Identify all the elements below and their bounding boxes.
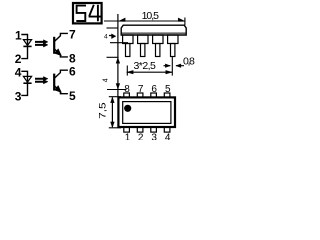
svg-text:7: 7 bbox=[138, 84, 144, 95]
svg-text:0,8: 0,8 bbox=[183, 56, 195, 68]
svg-text:2: 2 bbox=[138, 132, 144, 140]
svg-text:4: 4 bbox=[103, 78, 110, 82]
svg-text:6: 6 bbox=[151, 84, 157, 95]
svg-text:4: 4 bbox=[165, 132, 171, 140]
svg-text:8: 8 bbox=[69, 52, 76, 66]
svg-text:3: 3 bbox=[151, 132, 157, 140]
svg-text:5: 5 bbox=[69, 89, 76, 103]
svg-text:3*2,5: 3*2,5 bbox=[134, 60, 156, 72]
svg-text:1: 1 bbox=[125, 132, 131, 140]
svg-text:4: 4 bbox=[104, 34, 108, 41]
svg-text:7,5: 7,5 bbox=[98, 102, 108, 119]
svg-text:1: 1 bbox=[15, 28, 22, 42]
svg-text:4: 4 bbox=[15, 65, 22, 79]
svg-text:7: 7 bbox=[69, 28, 76, 42]
svg-text:5: 5 bbox=[165, 84, 171, 95]
svg-text:10,5: 10,5 bbox=[142, 10, 160, 22]
svg-text:8: 8 bbox=[124, 84, 130, 95]
svg-text:6: 6 bbox=[69, 65, 76, 79]
svg-text:3: 3 bbox=[15, 90, 22, 104]
svg-text:2: 2 bbox=[15, 52, 22, 66]
